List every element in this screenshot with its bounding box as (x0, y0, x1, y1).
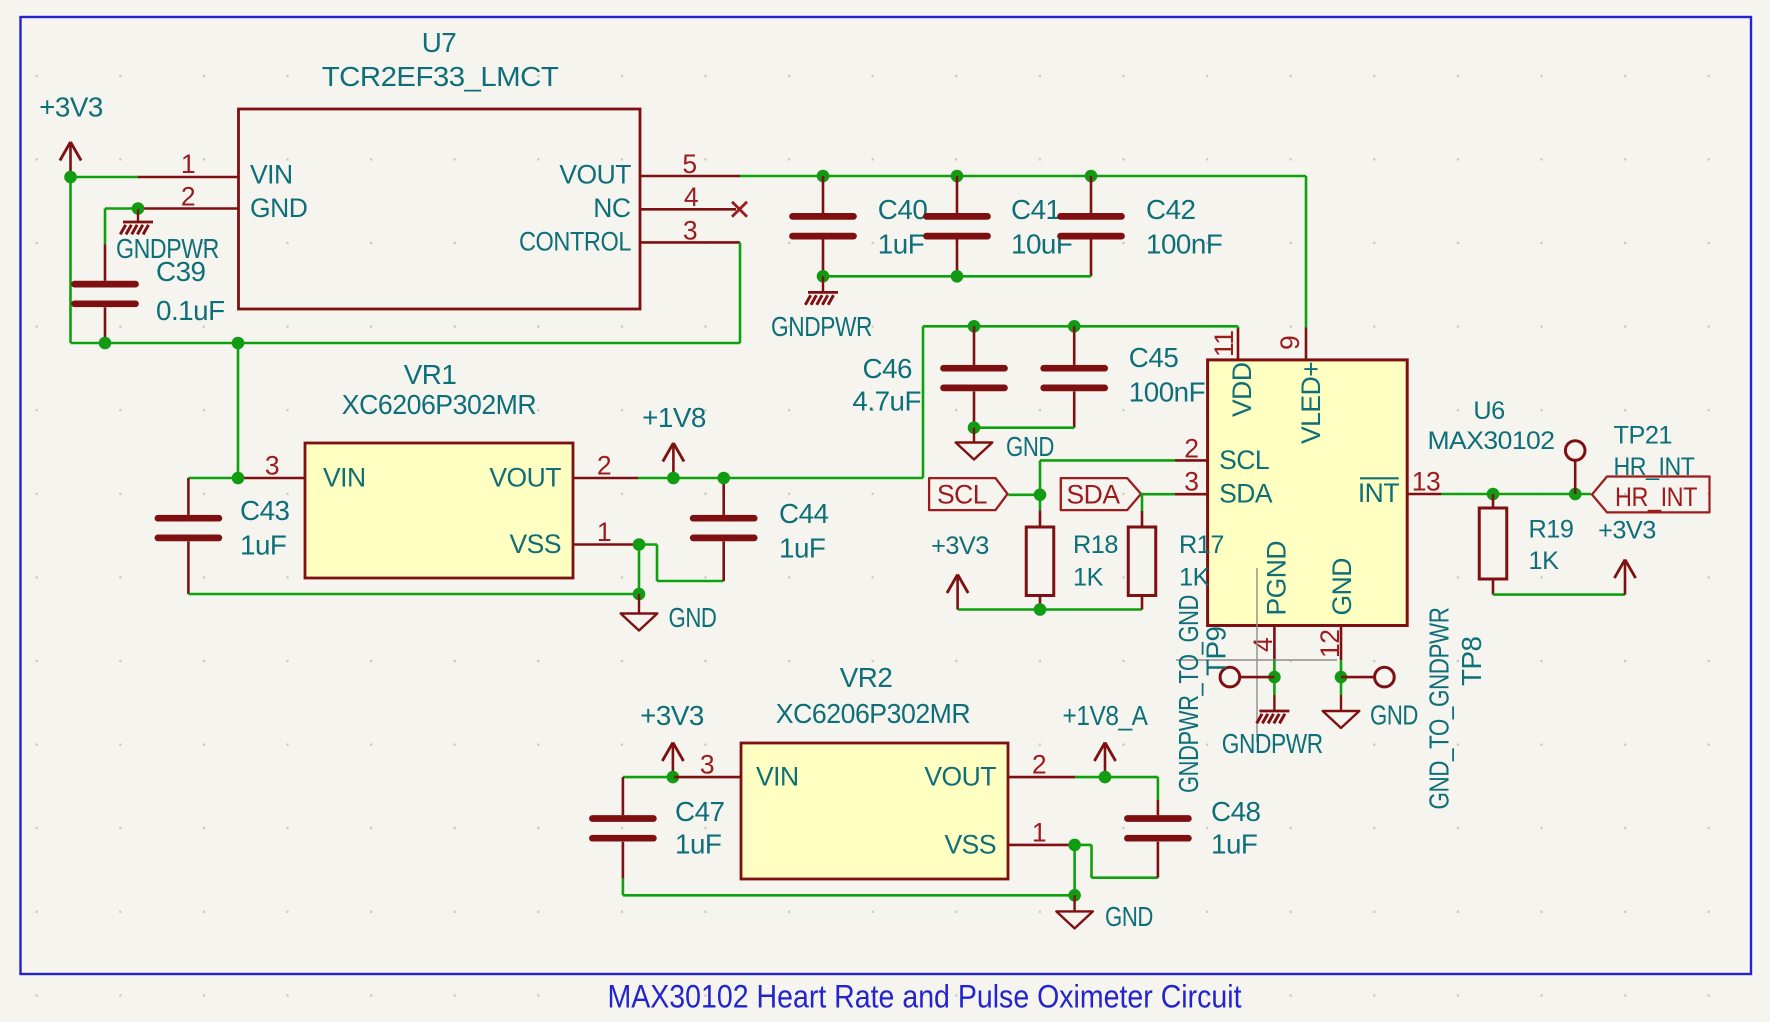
power symbol +3V3 at pullups (931, 532, 989, 610)
svg-text:TCR2EF33_LMCT: TCR2EF33_LMCT (322, 61, 559, 92)
wire VDD top rail (923, 325, 1238, 328)
capacitor C46 4.7uF (852, 326, 1004, 427)
U7 pin 1 VIN (138, 149, 293, 190)
wire PGND drop (1273, 660, 1276, 695)
svg-text:4.7uF: 4.7uF (852, 385, 921, 416)
svg-text:GND: GND (1006, 431, 1054, 462)
svg-text:C46: C46 (863, 353, 913, 384)
resistor R19 1K (1479, 494, 1573, 595)
node VR1 VSS junction (633, 538, 646, 551)
svg-text:1uF: 1uF (675, 829, 721, 860)
wire SDA down to R17 (1141, 494, 1144, 511)
svg-text:9: 9 (1275, 336, 1305, 350)
svg-text:SDA: SDA (1067, 480, 1121, 510)
svg-text:1: 1 (1032, 818, 1046, 848)
svg-text:R17: R17 (1179, 531, 1224, 559)
net label SCL (929, 478, 1007, 510)
node U7 GND junction (132, 202, 145, 215)
svg-text:VOUT: VOUT (489, 463, 561, 493)
svg-text:CONTROL: CONTROL (519, 226, 631, 256)
svg-text:GND_TO_GNDPWR: GND_TO_GNDPWR (1424, 608, 1455, 810)
svg-text:MAX30102 Heart Rate and Pulse: MAX30102 Heart Rate and Pulse Oximeter C… (608, 979, 1242, 1015)
svg-text:VIN: VIN (323, 463, 366, 493)
wire VR2 bottom rail (623, 894, 1075, 897)
capacitor C45 100nF (1044, 326, 1205, 427)
net label SDA (1061, 478, 1141, 510)
ground GND below TP8 (1323, 695, 1418, 731)
svg-text:VSS: VSS (509, 529, 561, 559)
svg-text:VR2: VR2 (840, 662, 893, 693)
regulator U7 TCR2EF33_LMCT body (239, 27, 641, 309)
svg-text:C42: C42 (1146, 194, 1196, 225)
svg-text:3: 3 (700, 750, 714, 780)
node C42 top junction (1085, 170, 1098, 183)
wire +1V8 rail (638, 477, 923, 480)
title text (608, 979, 1242, 1015)
svg-text:SDA: SDA (1219, 478, 1273, 508)
svg-text:TP9: TP9 (1201, 626, 1232, 676)
svg-text:MAX30102: MAX30102 (1428, 427, 1555, 455)
svg-text:R19: R19 (1529, 516, 1574, 544)
VR1 pin 2 VOUT (489, 451, 638, 493)
node VR1 VIN junction (232, 472, 245, 485)
svg-text:13: 13 (1412, 467, 1440, 497)
wire +1V8 riser to VDD rail (922, 326, 925, 478)
svg-text:VIN: VIN (250, 160, 293, 190)
svg-text:VOUT: VOUT (559, 160, 631, 190)
node C44 top junction (717, 472, 730, 485)
svg-text:+3V3: +3V3 (640, 700, 704, 731)
U6 pin 4 PGND (1248, 541, 1292, 660)
svg-text:GND: GND (250, 193, 307, 223)
svg-text:1: 1 (181, 149, 195, 179)
svg-text:PGND: PGND (1262, 541, 1292, 616)
svg-text:SCL: SCL (1219, 445, 1269, 475)
svg-text:C43: C43 (240, 495, 290, 526)
wire C40-C42 bottom rail (823, 275, 1091, 278)
ground GNDPWR at U7 pin 2 (116, 209, 219, 265)
svg-text:+1V8: +1V8 (642, 402, 706, 433)
capacitor C41 10uF (927, 176, 1073, 276)
svg-text:C41: C41 (1011, 194, 1061, 225)
svg-text:100nF: 100nF (1146, 228, 1222, 259)
VR2 pin 3 VIN (674, 750, 799, 792)
svg-text:+3V3: +3V3 (39, 92, 103, 123)
regulator VR1 XC6206P302MR body (305, 359, 573, 578)
svg-text:VIN: VIN (756, 762, 799, 792)
svg-text:1K: 1K (1179, 563, 1210, 591)
power symbol +1V8 (642, 402, 706, 478)
wire INT to HR_INT (1441, 493, 1591, 496)
svg-text:4: 4 (1248, 638, 1278, 652)
svg-text:VSS: VSS (944, 830, 996, 860)
svg-text:XC6206P302MR: XC6206P302MR (776, 698, 970, 729)
no-connect X on U7 pin 4 (732, 202, 747, 217)
svg-text:2: 2 (1032, 750, 1046, 780)
testpoint TP9 (1173, 595, 1274, 793)
node +3V3 / VIN junction (64, 171, 77, 184)
node C46 bottom junction (968, 421, 981, 434)
node VR1 rail junction (633, 588, 646, 601)
power symbol +3V3 at VR2 (640, 700, 704, 778)
wire SCL up and over to U6 (1040, 460, 1175, 494)
svg-text:GNDPWR: GNDPWR (771, 311, 872, 342)
ground GNDPWR below C40 (771, 276, 872, 342)
wire +3V3 rail down to VR1 VIN (237, 343, 240, 478)
svg-text:3: 3 (1184, 467, 1198, 497)
node R18 bottom junction (1034, 603, 1047, 616)
svg-text:5: 5 (682, 149, 696, 179)
wire VSS down to rail (1073, 845, 1076, 895)
capacitor C47 1uF (592, 777, 724, 895)
resistor R17 1K (1128, 511, 1224, 610)
ground GND below C46 (956, 428, 1054, 462)
wire bottom +3V3 rail (71, 342, 741, 345)
svg-text:1K: 1K (1529, 547, 1560, 575)
svg-text:INT: INT (1358, 478, 1400, 508)
node C41 bottom junction (951, 270, 964, 283)
svg-text:VDD: VDD (1227, 363, 1257, 417)
svg-text:XC6206P302MR: XC6206P302MR (342, 389, 536, 420)
svg-text:GND: GND (1370, 700, 1418, 731)
svg-text:11: 11 (1209, 330, 1239, 357)
svg-text:U6: U6 (1473, 397, 1504, 425)
node C40 top junction (817, 170, 830, 183)
node C41 top junction (951, 170, 964, 183)
wire CONTROL drop (739, 242, 742, 343)
svg-text:+3V3: +3V3 (1598, 517, 1656, 545)
wire VIN to C43 (188, 477, 238, 480)
svg-text:SCL: SCL (937, 480, 987, 510)
node VR2 VSS junction (1068, 839, 1081, 852)
node C40 bottom junction (817, 270, 830, 283)
U7 pin 5 VOUT (559, 149, 740, 190)
U6 pin 11 VDD (1209, 326, 1257, 417)
capacitor C44 1uF (693, 478, 828, 581)
sensor U6 MAX30102 body (1208, 360, 1555, 626)
svg-text:VR1: VR1 (404, 359, 457, 390)
node VR2 rail junction (1068, 889, 1081, 902)
wire VSS jog to C48 (1075, 845, 1158, 878)
svg-text:C39: C39 (156, 256, 206, 287)
regulator VR2 XC6206P302MR body (741, 662, 1008, 879)
capacitor C42 100nF (1061, 176, 1223, 276)
U7 pin 4 NC (593, 182, 736, 223)
svg-text:1uF: 1uF (878, 228, 924, 259)
svg-text:2: 2 (1184, 433, 1198, 463)
U6 pin 9 VLED+ (1275, 328, 1326, 445)
svg-text:4: 4 (684, 182, 698, 212)
svg-text:1uF: 1uF (240, 530, 286, 561)
U6 pin 12 GND (1315, 558, 1357, 660)
svg-text:C44: C44 (779, 498, 829, 529)
wire C46-C45 bottom (974, 426, 1074, 429)
node C39 bottom junction (99, 337, 112, 350)
wire +3V3 down left side (69, 177, 72, 343)
svg-text:1: 1 (597, 517, 611, 547)
wire VSS down to rail (638, 545, 641, 595)
U6 pin 2 SCL (1175, 433, 1269, 475)
svg-text:100nF: 100nF (1129, 377, 1205, 408)
svg-text:U7: U7 (422, 27, 457, 58)
wire VOUT rail down to U6 VLED+ (1305, 176, 1308, 328)
wire C47 to VR2 VIN (623, 776, 674, 779)
wire pullup +3V3 rail (958, 608, 1142, 611)
svg-text:GND: GND (669, 602, 717, 633)
power symbol +3V3 (top left) (39, 92, 103, 178)
svg-text:2: 2 (597, 451, 611, 481)
VR1 pin 1 VSS (509, 517, 639, 559)
node +1V8_A junction (1099, 771, 1112, 784)
svg-text:C47: C47 (675, 796, 725, 827)
wire U7 GND to C39 (105, 209, 138, 245)
svg-text:1uF: 1uF (1211, 829, 1257, 860)
svg-text:3: 3 (683, 215, 697, 245)
U6 pin 3 SDA (1175, 467, 1273, 509)
node C45 top junction (1068, 320, 1081, 333)
svg-text:GNDPWR_TO_GND: GNDPWR_TO_GND (1173, 595, 1204, 793)
capacitor C40 1uF (793, 176, 928, 276)
node TP21 junction (1569, 488, 1582, 501)
wire SCL down to R18 (1039, 495, 1042, 511)
VR1 pin 3 VIN (238, 451, 366, 493)
svg-text:+1V8_A: +1V8_A (1063, 700, 1149, 731)
ground GNDPWR below TP9 (1222, 695, 1323, 759)
node SCL junction (1034, 489, 1047, 502)
ground GND below VR1 (621, 594, 717, 633)
node +3V3 rail to VR1 junction (232, 337, 245, 350)
svg-text:1K: 1K (1073, 563, 1104, 591)
svg-text:0.1uF: 0.1uF (156, 295, 225, 326)
svg-text:GNDPWR: GNDPWR (1222, 728, 1323, 759)
net label HR_INT (1592, 477, 1710, 513)
svg-text:VLED+: VLED+ (1296, 362, 1326, 444)
resistor R18 1K (1026, 510, 1118, 609)
wire U7 VOUT rail (740, 175, 1306, 178)
svg-text:2: 2 (181, 182, 195, 212)
wire VR2 VOUT to C48 (1075, 777, 1158, 800)
svg-text:TP8: TP8 (1456, 636, 1487, 686)
capacitor C43 1uF (158, 478, 290, 594)
U7 pin 3 CONTROL (519, 215, 740, 256)
capacitor C39 0.1uF (75, 245, 225, 344)
svg-text:GND: GND (1327, 558, 1357, 615)
svg-text:1uF: 1uF (779, 533, 825, 564)
crosshair cursor lines (1176, 568, 1337, 742)
svg-text:GND: GND (1105, 901, 1153, 932)
wire +3V3 to U7 VIN (71, 176, 139, 179)
node R19 top junction (1487, 488, 1500, 501)
node C46 top junction (968, 320, 981, 333)
svg-text:C45: C45 (1129, 342, 1179, 373)
wire GND drop (1340, 660, 1343, 695)
U7 pin 2 GND (138, 182, 307, 223)
svg-text:3: 3 (265, 451, 279, 481)
node TP8 junction (1335, 671, 1348, 684)
wire VSS jog to C44 (639, 545, 724, 582)
power symbol +3V3 at R19 (1598, 517, 1656, 595)
node TP9 junction (1268, 671, 1281, 684)
svg-text:C40: C40 (878, 194, 928, 225)
VR2 pin 1 VSS (944, 818, 1074, 860)
wire SCL label to junction (1008, 493, 1040, 496)
svg-text:VOUT: VOUT (924, 762, 996, 792)
VR2 pin 2 VOUT (924, 750, 1075, 792)
svg-text:+3V3: +3V3 (931, 532, 989, 560)
svg-text:NC: NC (593, 193, 631, 223)
node +1V8 junction (667, 472, 680, 485)
wire R19 to +3V3 (1493, 593, 1625, 596)
svg-text:R18: R18 (1073, 531, 1118, 559)
power symbol +1V8_A (1063, 700, 1149, 778)
svg-text:12: 12 (1315, 630, 1345, 658)
svg-text:C48: C48 (1211, 796, 1261, 827)
svg-text:TP21: TP21 (1614, 422, 1672, 450)
testpoint TP8 (1341, 608, 1487, 810)
capacitor C48 1uF (1127, 796, 1260, 878)
wire SDA label to U6 (1141, 493, 1175, 496)
ground GND below VR2 (1056, 895, 1153, 932)
node VR2 VIN junction (667, 771, 680, 784)
testpoint TP21 (1565, 422, 1694, 495)
U6 pin 13 INT (1358, 467, 1441, 509)
wire VR1 bottom rail (188, 593, 639, 596)
svg-text:HR_INT: HR_INT (1615, 482, 1697, 512)
